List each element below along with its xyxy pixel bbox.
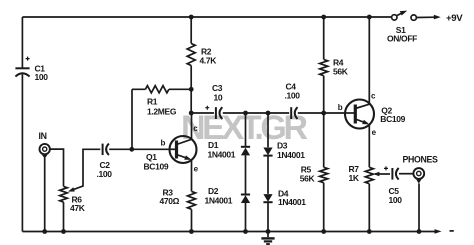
- capacitor C1: [15, 57, 48, 82]
- svg-text:100: 100: [35, 72, 49, 82]
- junction node 8: [266, 111, 271, 116]
- svg-text:PHONES: PHONES: [403, 154, 439, 164]
- wire left rail lower (C1 to ground rail): [21, 75, 23, 232]
- svg-text:D1: D1: [208, 140, 219, 150]
- diode D1 1N4001: [208, 140, 251, 160]
- svg-text:+9V: +9V: [446, 13, 463, 24]
- svg-text:4.7K: 4.7K: [200, 56, 218, 66]
- svg-text:56K: 56K: [333, 67, 349, 77]
- svg-text:1N4001: 1N4001: [205, 196, 233, 206]
- svg-text:Q1: Q1: [146, 152, 157, 162]
- wire Q2 collector to rail: [368, 17, 370, 104]
- wire R1 left leg down to base node: [131, 89, 133, 149]
- resistor R4: [320, 57, 349, 76]
- junction node 11: [61, 229, 66, 234]
- wire R7 wiper to C5: [375, 173, 390, 175]
- svg-text:100: 100: [389, 195, 403, 205]
- wire R6 bottom to rail: [63, 202, 65, 231]
- wire left rail upper (to C1): [21, 17, 23, 68]
- svg-text:1.2MEG: 1.2MEG: [147, 107, 177, 117]
- junction node 14: [266, 229, 271, 234]
- svg-text:b: b: [338, 103, 343, 112]
- svg-text:BC109: BC109: [144, 162, 169, 172]
- junction node 10: [42, 229, 47, 234]
- svg-text:C3: C3: [212, 83, 223, 93]
- svg-text:D2: D2: [208, 186, 219, 196]
- svg-text:1K: 1K: [349, 173, 360, 183]
- wire R6 wiper to C2: [71, 149, 101, 190]
- junction node 4: [189, 87, 194, 92]
- connector IN jack J1: [39, 131, 50, 159]
- svg-text:1N4001: 1N4001: [278, 197, 306, 207]
- wire R1 leads: [132, 88, 191, 90]
- capacitor C2: [97, 144, 113, 179]
- resistor R2: [187, 44, 217, 66]
- ground: [261, 232, 274, 245]
- svg-text:470Ω: 470Ω: [160, 196, 180, 206]
- transistor Q1 BC109: [144, 124, 199, 174]
- wire bottom rail stub dash: [450, 230, 454, 232]
- potentiometer R6: [60, 186, 86, 213]
- junction node 15: [321, 229, 326, 234]
- wire R2/Q1 collector vertical: rail to R2: [190, 17, 192, 44]
- junction node 9: [321, 111, 326, 116]
- junction node 12: [189, 229, 194, 234]
- wire D3/D4 chain: [267, 113, 269, 232]
- junction node 3: [367, 15, 372, 20]
- junction node 13: [243, 229, 248, 234]
- potentiometer R7: [349, 164, 374, 184]
- junction node 7: [243, 111, 248, 116]
- capacitor C5: [384, 166, 402, 205]
- diode D2 1N4001: [205, 186, 251, 206]
- svg-text:1N4001: 1N4001: [277, 150, 305, 160]
- wire R4/R5 vertical: [323, 17, 325, 232]
- diode D4 1N4001: [263, 188, 306, 207]
- junction node 6: [189, 111, 194, 116]
- wire C5 to phones jack: [399, 173, 413, 175]
- diode D3 1N4001: [263, 140, 305, 160]
- svg-text:1N4001: 1N4001: [208, 150, 236, 160]
- wire IN jack to R6 top: [50, 149, 64, 186]
- wire phones jack down to rail: [418, 184, 420, 232]
- wire top supply rail: [22, 16, 391, 18]
- junction node 17: [417, 229, 422, 234]
- svg-text:.100: .100: [97, 169, 113, 179]
- wire IN jack down to ground rail: [44, 158, 46, 232]
- svg-text:D3: D3: [277, 140, 288, 150]
- transistor Q2 BC109: [338, 91, 406, 137]
- svg-text:b: b: [161, 138, 166, 147]
- wire C2 to Q1 base: [109, 148, 170, 150]
- junction node 16: [367, 229, 372, 234]
- wire switch to +9V arrow: [416, 16, 435, 18]
- capacitor C4: [285, 81, 301, 119]
- connector PHONES jack: [403, 154, 439, 183]
- svg-text:ON/OFF: ON/OFF: [387, 34, 417, 44]
- wire node to Q1 collector: [191, 113, 193, 140]
- svg-text:IN: IN: [39, 131, 47, 141]
- resistor R3: [160, 161, 196, 232]
- svg-text:10: 10: [214, 93, 223, 103]
- svg-text:BC109: BC109: [380, 114, 405, 124]
- resistor R1: [145, 86, 176, 117]
- switch S1 ON/OFF: [387, 11, 417, 44]
- junction node 5: [129, 147, 134, 152]
- wire Q2 emitter to R7 to rail: [368, 125, 370, 232]
- junction node 1: [189, 15, 194, 20]
- wire D1/D2 chain: [245, 113, 247, 232]
- resistor R5: [300, 164, 328, 183]
- wire R2 bottom to R1 node: [190, 66, 192, 114]
- junction node 2: [321, 15, 326, 20]
- capacitor C3: [205, 83, 223, 119]
- svg-text:47K: 47K: [70, 203, 86, 213]
- svg-text:.100: .100: [285, 91, 301, 101]
- svg-text:56K: 56K: [300, 174, 316, 184]
- wire signal line C3: [192, 112, 215, 114]
- wire bottom ground rail: [22, 231, 436, 233]
- svg-text:R1: R1: [147, 97, 158, 107]
